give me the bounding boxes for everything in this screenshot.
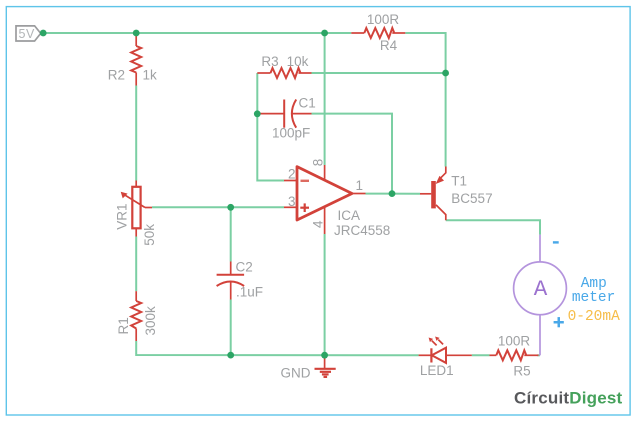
wire ground rail — [136, 341, 418, 355]
wire VR1 bottom to R1 top — [135, 237, 137, 292]
wire R3 output to R4 junction — [312, 72, 446, 74]
svg-text:R3: R3 — [261, 54, 278, 69]
supply tag 5V — [16, 26, 41, 41]
svg-text:C1: C1 — [299, 96, 316, 111]
svg-text:CírcuitDigest: CírcuitDigest — [514, 389, 623, 408]
svg-text:GND: GND — [281, 365, 311, 380]
svg-text:100R: 100R — [367, 12, 400, 27]
svg-text:100R: 100R — [498, 333, 531, 348]
node R2 top on 5V rail — [133, 30, 140, 37]
node ground junction — [321, 352, 328, 359]
svg-text:R4: R4 — [380, 38, 398, 53]
svg-text:.1uF: .1uF — [236, 284, 263, 299]
resistor R5 — [490, 333, 539, 378]
node pin8 branch on 5V rail — [321, 30, 328, 37]
capacitor C2 — [217, 260, 263, 300]
svg-text:LED1: LED1 — [420, 363, 454, 378]
svg-text:BC557: BC557 — [451, 191, 492, 206]
svg-text:100pF: 100pF — [272, 125, 310, 140]
svg-text:R5: R5 — [513, 363, 530, 378]
wire VR1 wiper to op-amp pin 3 — [152, 206, 284, 208]
wire op-amp pin 4 to ground rail — [324, 234, 326, 355]
node 5V tag output — [40, 30, 47, 37]
svg-text:0-20mA: 0-20mA — [568, 309, 621, 325]
logo CircuitDigest — [514, 389, 623, 408]
node R3/R4 junction — [442, 70, 449, 77]
wire op-amp pin 8 supply — [324, 33, 326, 165]
svg-text:C2: C2 — [236, 260, 253, 275]
label Amp meter — [572, 276, 616, 306]
svg-text:R2: R2 — [108, 68, 125, 83]
op-amp U1 ICA JRC4558 — [284, 159, 390, 238]
svg-text:1k: 1k — [143, 68, 158, 83]
svg-text:10k: 10k — [287, 54, 309, 69]
svg-text:300k: 300k — [143, 306, 158, 336]
wire 5V rail — [43, 32, 351, 34]
wire LED to R5 — [472, 354, 490, 356]
wire C2 bottom to ground rail — [230, 300, 232, 356]
wire R2 bottom to VR1 top — [135, 86, 137, 181]
svg-text:50k: 50k — [142, 224, 157, 246]
wire T1 collector to ammeter — [446, 220, 540, 234]
svg-text:4: 4 — [310, 220, 325, 228]
svg-text:T1: T1 — [451, 173, 467, 188]
led LED1 — [419, 337, 472, 378]
node op-amp output / feedback junction — [389, 190, 396, 197]
capacitor C1 — [257, 96, 315, 141]
wire C2 top stub — [230, 207, 232, 261]
label ammeter minus — [553, 241, 559, 243]
svg-text:2: 2 — [288, 167, 296, 182]
svg-text:R1: R1 — [116, 317, 131, 334]
wire op-amp output to T1 base — [366, 193, 421, 195]
svg-text:ICA: ICA — [338, 208, 361, 223]
resistor R3 — [257, 54, 311, 78]
svg-text:A: A — [534, 276, 548, 302]
resistor R1 300k — [116, 291, 158, 341]
node C2 bottom on ground rail — [227, 352, 234, 359]
node C1 left junction — [254, 110, 261, 117]
wire C1 right to output node — [312, 114, 393, 194]
svg-text:meter: meter — [572, 290, 616, 306]
ammeter M1 — [514, 235, 567, 356]
svg-text:VR1: VR1 — [115, 204, 130, 230]
svg-text:1: 1 — [356, 178, 364, 193]
label ammeter plus — [554, 317, 564, 327]
wire R5 right stub — [537, 354, 540, 356]
svg-text:JRC4558: JRC4558 — [334, 223, 390, 238]
resistor R2 — [108, 33, 157, 86]
potentiometer VR1 50k — [115, 181, 158, 246]
svg-text:3: 3 — [288, 194, 296, 209]
ground GND — [281, 355, 336, 380]
label 0-20mA — [568, 309, 621, 325]
resistor R4 — [351, 12, 405, 53]
svg-text:8: 8 — [310, 159, 325, 167]
node wiper / C2 junction — [227, 204, 234, 211]
transistor T1 BC557 — [420, 167, 493, 221]
wire R4 right to T1 emitter — [405, 33, 445, 167]
wire feedback left rail to op-amp pin 2 — [257, 73, 284, 181]
svg-text:5V: 5V — [19, 27, 35, 41]
